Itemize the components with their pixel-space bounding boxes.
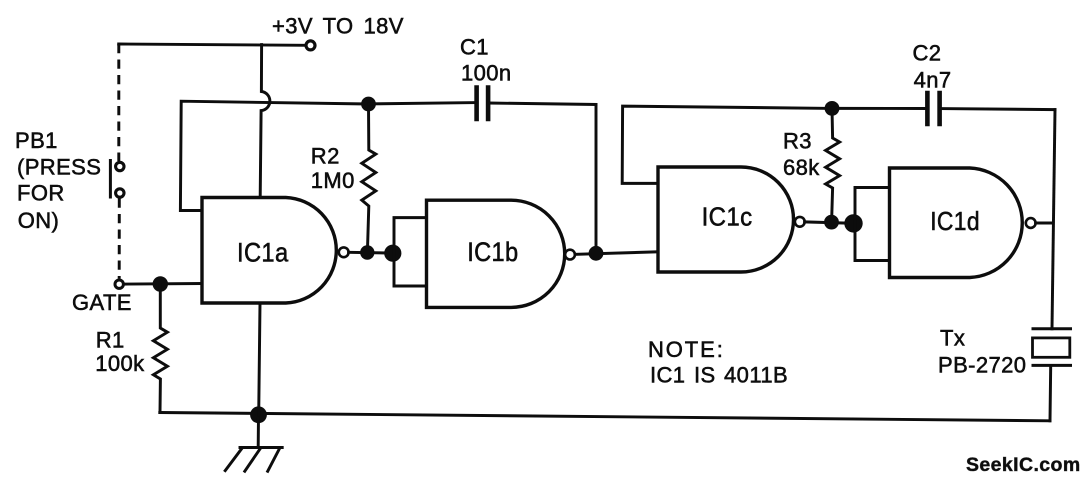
wire IC1c output [805,222,855,223]
capacitor C2 right wire [940,109,1055,110]
terminal +3V supply [306,41,315,50]
wire +V top rail [119,44,306,45]
svg-text:Tx: Tx [940,326,965,351]
bubble IC1c output [795,217,805,227]
terminal GATE [115,280,123,288]
capacitor C2 plates [927,93,939,124]
bubble IC1a output [339,247,349,257]
ground chassis symbol [225,448,282,472]
capacitor C2 left wire [832,107,927,110]
svg-text:R1: R1 [96,328,125,353]
svg-text:PB-2720: PB-2720 [938,352,1026,377]
pushbutton PB1 actuator bar [109,161,112,198]
svg-text:IC1 IS 4011B: IC1 IS 4011B [650,363,788,388]
junction node A (R2 top / C1 left) [361,97,376,112]
pushbutton PB1 contact top [116,162,124,170]
junction IC1b input [384,245,401,262]
svg-text:C1: C1 [460,34,489,59]
svg-text:(PRESS: (PRESS [17,155,101,180]
svg-text:4n7: 4n7 [914,68,952,93]
resistor R2 [362,104,376,252]
resistor R3 [826,108,840,222]
wire GATE to IC1a input [125,282,202,286]
svg-text:FOR: FOR [17,180,65,205]
svg-text:GATE: GATE [72,290,132,315]
IC1b input bracket [394,218,427,286]
svg-text:PB1: PB1 [15,128,58,153]
svg-text:68k: 68k [783,155,820,180]
svg-text:SeekIC.com: SeekIC.com [966,454,1081,476]
junction R3 top / C2 left [825,101,840,116]
junction bus / ground [250,406,267,423]
svg-text:IC1d: IC1d [930,206,980,236]
svg-text:IC1a: IC1a [237,238,289,268]
wire PB1 dashed link lower [118,199,121,279]
pushbutton PB1 contact bottom [116,189,124,197]
junction R3 bottom [824,215,839,230]
gate IC1d body [890,168,1023,278]
svg-text:1M0: 1M0 [311,168,355,193]
wire IC1a bottom supply pin to bus [259,303,260,415]
wire 0V bottom bus [160,413,1050,421]
wire piezo bottom to bus [1049,366,1053,421]
piezo transducer Tx top plate [1033,327,1071,330]
bubble IC1b output [565,250,575,260]
wire IC1b output to IC1c input [575,252,658,255]
wire +V vertical with hop over feedback wire [260,45,270,198]
svg-text:R3: R3 [783,129,812,154]
capacitor C1 left wire [369,103,477,104]
capacitor C1 plates [477,88,489,119]
gate IC1a body [202,198,336,304]
junction GATE / R1 [153,276,168,291]
capacitor C1 right wire [488,103,596,105]
IC1d input bracket [855,188,890,261]
junction R2 bottom [360,245,374,259]
svg-text:NOTE:: NOTE: [648,337,725,362]
wire IC1a output [349,251,394,255]
svg-text:IC1c: IC1c [702,202,753,232]
svg-text:ON): ON) [18,208,60,233]
junction IC1b output node [589,246,604,261]
wire C1 to IC1b output node [595,105,598,254]
wire IC1c feedback: R3 top node to IC1c input [622,106,832,183]
svg-text:IC1b: IC1b [467,237,518,267]
junction IC1d input [844,214,862,232]
bubble IC1d output [1026,218,1036,228]
wire IC1d output [1036,222,1053,225]
svg-text:R2: R2 [311,143,340,168]
wire IC1a feedback: node A to input [180,101,368,210]
svg-text:100n: 100n [461,61,512,86]
gate IC1b body [427,200,565,307]
wire C2 right to IC1d output and piezo [1052,110,1055,329]
piezo transducer Tx bottom plate [1033,364,1071,367]
svg-text:100k: 100k [95,351,145,376]
wire PB1 dashed link upper [117,44,120,161]
piezo transducer Tx body [1033,338,1070,357]
wire ground stub [257,415,260,448]
gate IC1c body [658,167,794,272]
svg-text:+3V TO 18V: +3V TO 18V [272,14,404,39]
svg-text:C2: C2 [913,41,942,66]
resistor R1 [153,284,167,413]
